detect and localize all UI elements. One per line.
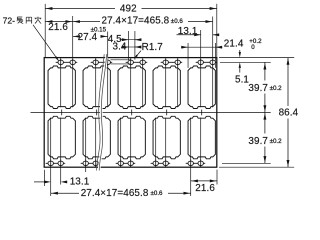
svg-text:0: 0 — [251, 44, 255, 51]
svg-text:39.7: 39.7 — [248, 136, 268, 147]
svg-text:5.1: 5.1 — [235, 74, 249, 85]
svg-text:±0.15: ±0.15 — [91, 27, 107, 34]
svg-text:39.7: 39.7 — [248, 83, 268, 94]
svg-text:27.4×17=465.8: 27.4×17=465.8 — [81, 188, 149, 199]
svg-text:R1.7: R1.7 — [142, 42, 163, 53]
svg-text:±0.6: ±0.6 — [151, 190, 164, 197]
svg-text:492: 492 — [120, 3, 137, 14]
svg-text:21.4: 21.4 — [224, 39, 244, 50]
svg-text:27.4×17=465.8: 27.4×17=465.8 — [102, 15, 170, 26]
svg-text:13.1: 13.1 — [178, 26, 198, 37]
svg-text:72-: 72- — [3, 15, 16, 25]
svg-text:21.6: 21.6 — [48, 22, 68, 33]
svg-text:±0.2: ±0.2 — [270, 85, 283, 92]
svg-text:13.1: 13.1 — [70, 176, 90, 187]
svg-text:±0.6: ±0.6 — [171, 18, 184, 25]
svg-text:±0.2: ±0.2 — [270, 138, 283, 145]
svg-text:3.4: 3.4 — [113, 42, 127, 53]
svg-text:21.6: 21.6 — [195, 183, 215, 194]
svg-text:86.4: 86.4 — [279, 107, 299, 118]
